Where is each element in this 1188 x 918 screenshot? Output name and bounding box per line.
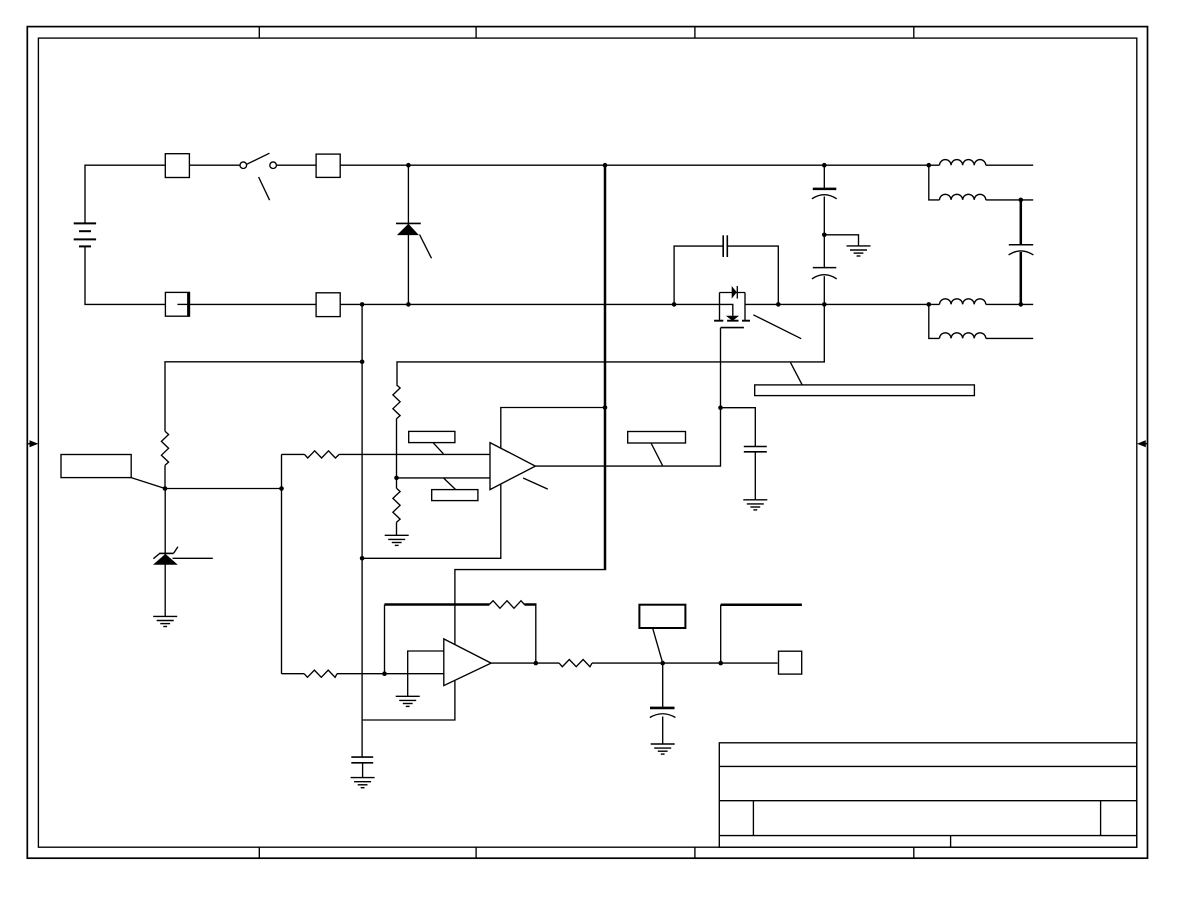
resistor R5 <box>304 670 337 677</box>
node U1 feedback top bus <box>603 405 608 410</box>
fuse F4 <box>316 293 340 317</box>
label box U1 output <box>628 432 686 444</box>
diode D1 <box>396 223 421 235</box>
border arrow left <box>27 440 38 447</box>
wire R7 to output square <box>592 662 778 664</box>
zener D2 stub <box>173 557 213 559</box>
op-amp U2 <box>444 639 491 686</box>
wire bus bottom elbow to x455 <box>363 570 607 720</box>
wire U2 feedback left vertical <box>384 605 386 674</box>
node x362 y362 <box>360 360 365 365</box>
wire transformer primary left vertical <box>929 165 940 200</box>
border tick top 3 <box>694 27 696 38</box>
wire bottom rail Q1 to transformer <box>745 303 940 305</box>
wire U2 feedback bold top <box>385 603 490 606</box>
label box long net name <box>755 385 975 396</box>
wire gate RC branch <box>721 408 756 447</box>
op-amp U1 <box>490 443 535 490</box>
node bottom rail cap C4 <box>1019 302 1024 307</box>
capacitor C1 snubber <box>723 235 727 257</box>
node top rail transformer <box>927 163 932 168</box>
wire x281 vertical <box>281 454 283 673</box>
inductor L1 <box>940 160 986 166</box>
wire snubber loop right vertical <box>727 246 778 304</box>
wire inductor L2 to cap C4 <box>986 199 1033 201</box>
node U2 output feedback <box>534 661 539 666</box>
label box U1 minus leader <box>443 478 455 490</box>
wire node A vertical below resistor R1 <box>164 465 166 488</box>
resistor R6 <box>489 601 524 609</box>
wire bottom rail F3 to fuse F4 <box>190 303 317 305</box>
wire output stub bold horizontal <box>721 603 802 606</box>
label box node A leader <box>131 478 165 489</box>
wire cap chain x824 middle <box>823 197 825 268</box>
node bottom rail transformer <box>927 302 932 307</box>
ground below zener D2 <box>153 616 177 626</box>
wire resistor R2 chain vertical <box>396 419 398 489</box>
label box U1 output leader <box>651 443 663 465</box>
wire top rail F2 to right end <box>340 164 939 166</box>
node gate RC junction <box>718 405 723 410</box>
transistor Q1 mosfet <box>714 286 750 328</box>
zener D2 <box>153 547 178 565</box>
wire top rail switch S1 to fuse F2 <box>276 164 316 166</box>
title block row line 3 <box>719 835 1137 837</box>
inductor L4 <box>940 333 986 339</box>
resistor R2 <box>393 385 400 419</box>
label box node A <box>61 455 131 478</box>
border tick top 2 <box>475 27 477 38</box>
wire cap C7 to ground <box>662 717 664 745</box>
wire inductor L4 right <box>986 337 1033 339</box>
title block divider bottom <box>950 836 952 848</box>
wire cap chain x824 top <box>823 165 825 189</box>
wire snubber loop left vertical <box>674 246 723 304</box>
wire cap C6 to ground <box>362 763 364 778</box>
wire top rail F1 to switch S1 <box>189 164 240 166</box>
title block divider left <box>752 801 754 836</box>
diode D1 leader <box>420 235 432 259</box>
node A junction <box>163 486 168 491</box>
node bottom rail snubber right <box>776 302 781 307</box>
wire left branch horizontal y362 <box>165 362 362 432</box>
wire cap chain below rail to gate net <box>397 304 824 384</box>
inductor L3 <box>940 299 986 305</box>
switch S1 leader <box>259 177 270 200</box>
title block divider right <box>1100 801 1102 836</box>
wire opamp U2 minus chain <box>282 673 444 675</box>
wire zener branch vertical <box>164 489 166 617</box>
capacitor C6 <box>351 757 373 763</box>
wire node A horizontal to x281 <box>165 488 282 490</box>
node bottom rail snubber left <box>672 302 677 307</box>
border tick bottom 4 <box>913 847 915 858</box>
label box U1 plus leader <box>433 443 443 454</box>
node output cap C7 <box>660 661 665 666</box>
wire U2 feedback right elbow <box>524 605 536 664</box>
switch S1 <box>240 153 276 168</box>
wire cap C4 vertical bold upper <box>1020 200 1023 245</box>
ground below cap C6 <box>351 778 375 788</box>
ground opamp U2 plus <box>396 696 420 706</box>
node top rail bus <box>603 163 608 168</box>
resistor R4 <box>305 451 340 458</box>
capacitor C3 <box>812 268 837 279</box>
capacitor C5 <box>744 447 767 452</box>
node x281 junction <box>279 486 284 491</box>
wire opamp U1 plus input <box>282 453 491 455</box>
capacitor C2 <box>812 189 837 199</box>
border tick bottom 3 <box>694 847 696 858</box>
title block row line 2 <box>719 800 1137 802</box>
wire U2 plus input bracket to ground <box>408 651 444 696</box>
capacitor C4 <box>1009 245 1034 255</box>
node U1 feedback bottom <box>360 556 365 561</box>
ground below resistor R3 <box>385 535 409 545</box>
title block outline <box>719 743 1137 847</box>
wire top rail battery to fuse F1 <box>85 165 165 223</box>
label box U1 minus <box>432 490 478 501</box>
wire cap C5 to ground <box>754 452 756 500</box>
node top rail cap chain <box>822 163 827 168</box>
fuse F1 <box>165 154 189 178</box>
node U2 minus junction <box>382 671 387 676</box>
wire output stub up <box>720 605 722 663</box>
node top rail diode <box>406 163 411 168</box>
op-amp U1 leader <box>523 478 548 489</box>
fuse F3 <box>165 292 189 316</box>
node bottom rail cap chain <box>822 302 827 307</box>
wire cap chain ground branch <box>824 235 858 246</box>
wire top rail after inductor L1 <box>986 164 1033 166</box>
wire U1 feedback loop <box>362 408 605 559</box>
border tick top 4 <box>913 27 915 38</box>
label box U1 plus <box>409 431 455 442</box>
wire bottom rail after inductor L3 <box>986 303 1033 305</box>
resistor R1 <box>161 431 168 465</box>
node cap chain mid <box>822 233 827 238</box>
wire U1 output to gate <box>535 328 720 467</box>
transistor Q1 leader <box>753 315 801 339</box>
ground near cap chain <box>847 246 871 256</box>
resistor R3 <box>393 488 400 522</box>
border tick top 1 <box>258 27 260 38</box>
node bottom rail x362 <box>360 302 365 307</box>
title block row line 1 <box>719 765 1137 767</box>
wire cap C4 vertical bold lower <box>1020 252 1023 304</box>
node L2 cap C4 <box>1019 198 1024 203</box>
fuse F2 <box>316 154 340 177</box>
wire transformer secondary left vertical <box>929 304 940 338</box>
node bottom rail diode <box>406 302 411 307</box>
battery BT1 <box>74 223 96 246</box>
wire diode D1 branch vertical <box>407 165 409 304</box>
wire bottom rail battery to fuse F3 <box>85 246 165 304</box>
border arrow right <box>1137 440 1148 447</box>
node output stub <box>718 661 723 666</box>
border tick bottom 1 <box>258 847 260 858</box>
wire bold bus vertical x605 <box>604 165 607 569</box>
output terminal square <box>779 651 802 674</box>
wire bottom rail F4 to mosfet Q1 <box>340 303 719 305</box>
inductor L2 <box>940 194 986 200</box>
border tick bottom 2 <box>475 847 477 858</box>
node U1 minus junction <box>394 476 399 481</box>
wire cap chain x824 lower <box>823 276 825 304</box>
wire output node to cap C7 <box>662 663 664 708</box>
wire main sense vertical x362 <box>361 304 363 757</box>
ground below cap C5 <box>743 500 767 510</box>
wire opamp U1 minus input <box>397 477 491 479</box>
wire resistor R3 to ground <box>396 522 398 535</box>
capacitor C7 <box>650 708 676 718</box>
label box U2 output leader <box>653 628 663 663</box>
ground below cap C7 <box>651 744 675 754</box>
resistor R7 <box>559 660 592 667</box>
wire U2 output to R7 <box>491 662 559 664</box>
label box long net leader <box>791 363 803 385</box>
label box U2 output <box>639 605 685 628</box>
